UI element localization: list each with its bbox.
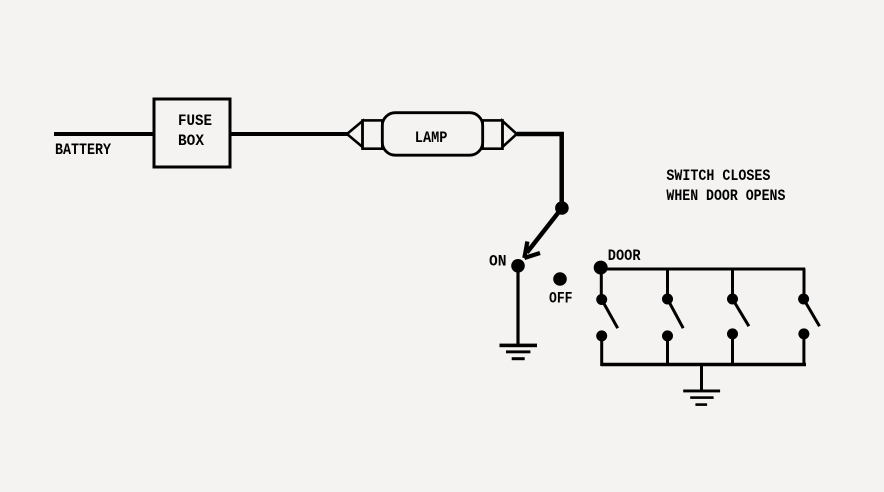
- switch S1 arrowhead barb up: [524, 242, 527, 259]
- node OFF contact: [553, 272, 567, 286]
- door switch S2 lower contact: [596, 330, 607, 341]
- wire from fuse box to lamp: [230, 132, 348, 136]
- door switch S3 upper lead: [666, 269, 669, 299]
- ground G2 bar 2: [690, 396, 713, 399]
- svg-text:FUSE: FUSE: [178, 112, 212, 130]
- svg-text:WHEN DOOR OPENS: WHEN DOOR OPENS: [666, 187, 785, 205]
- wire door bus top rail: [601, 268, 806, 271]
- door switch S3 upper contact: [662, 294, 673, 305]
- door switch S5 lower contact: [798, 328, 809, 339]
- ground G2 bar 1: [683, 390, 720, 393]
- svg-text:OFF: OFF: [549, 290, 573, 308]
- ground G1 bar 2: [506, 350, 530, 353]
- switch S1 arrowhead barb right: [524, 253, 540, 258]
- door switch S2 upper lead: [600, 268, 603, 300]
- door switch S3 lower lead: [666, 336, 669, 366]
- wire from bottom rail to ground: [700, 365, 703, 391]
- wire door bus bottom rail: [601, 363, 806, 367]
- svg-text:BOX: BOX: [178, 132, 204, 150]
- ground G1 bar 1: [500, 344, 538, 348]
- node DOOR bus: [594, 261, 608, 275]
- wire from lamp to switch (corner): [517, 134, 562, 208]
- svg-text:ON: ON: [489, 253, 507, 271]
- lamp DS1 left terminal cone: [347, 121, 363, 147]
- door switch S4 upper contact: [727, 294, 738, 305]
- door switch S3 blade: [668, 299, 684, 328]
- door switch S4 lower contact: [727, 328, 738, 339]
- door switch S5 blade: [804, 299, 820, 326]
- lamp DS1 right terminal cone: [503, 121, 517, 147]
- svg-text:LAMP: LAMP: [415, 129, 448, 147]
- lamp DS1 body: [382, 113, 482, 156]
- door switch S5 upper contact: [798, 294, 809, 305]
- switch S1 pivot junction node: [555, 201, 569, 215]
- ground G2 bar 3: [695, 403, 707, 406]
- switch S1 arm (arrow shaft to ON): [527, 208, 562, 253]
- door switch S4 upper lead: [731, 269, 734, 299]
- lamp DS1 right end cap: [483, 120, 503, 148]
- ground G1 bar 3: [512, 357, 525, 360]
- wire from battery to fuse box: [54, 132, 154, 136]
- door switch S3 lower contact: [662, 330, 673, 341]
- door switch S4 lower lead: [731, 334, 734, 366]
- svg-text:DOOR: DOOR: [608, 247, 641, 265]
- wire from ON contact to ground: [516, 266, 519, 345]
- node ON contact: [511, 259, 525, 273]
- door switch S2 upper contact: [596, 294, 607, 305]
- door switch S4 blade: [733, 299, 749, 326]
- door switch S5 upper lead: [803, 269, 806, 299]
- svg-text:SWITCH CLOSES: SWITCH CLOSES: [666, 167, 770, 185]
- lamp DS1 left end cap: [363, 120, 383, 148]
- fuse box F1: [154, 99, 230, 167]
- door switch S2 blade: [602, 300, 618, 329]
- svg-text:BATTERY: BATTERY: [55, 141, 111, 159]
- door switch S2 lower lead: [600, 336, 603, 366]
- door switch S5 lower lead: [802, 334, 805, 366]
